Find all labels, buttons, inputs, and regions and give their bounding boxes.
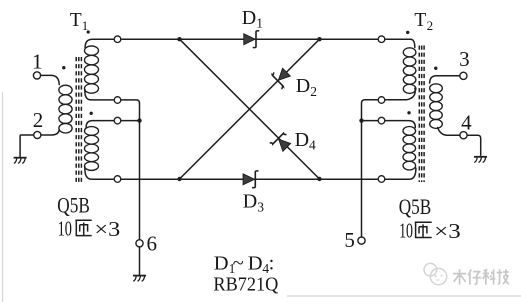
polarity dot T2 upper-left winding <box>406 31 409 34</box>
wire T1 secondary mid-upper to tap line and terminal 6 <box>85 90 140 240</box>
polarity dot T2 right winding <box>434 67 437 70</box>
wire T1 secondary mid-lower <box>86 121 139 128</box>
node top-left <box>177 37 181 41</box>
wire T1 primary bottom to terminal-2 <box>41 130 59 136</box>
value label 10 turns x3 (left): CJK za <box>75 220 91 235</box>
value label 10 turns x3 (right): CJK za <box>415 222 432 237</box>
svg-text:2: 2 <box>310 84 317 99</box>
transformer T1 upper secondary winding <box>85 46 99 55</box>
diode D2 <box>278 68 290 80</box>
connector circle T1 mid-lower <box>114 117 121 124</box>
wire top rail <box>85 39 415 47</box>
wire bottom rail <box>85 167 416 179</box>
svg-text:1: 1 <box>82 18 89 33</box>
watermark baseline rule <box>287 295 521 297</box>
node dot near T1 label <box>87 30 90 33</box>
watermark logo icon <box>424 263 437 276</box>
svg-text:T: T <box>414 10 426 31</box>
svg-text:3: 3 <box>257 199 264 214</box>
wire terminal-3 to T2 right winding top <box>430 76 460 83</box>
svg-text:6: 6 <box>146 232 157 256</box>
svg-text:D: D <box>242 7 256 29</box>
wire (scan page-edge line, left) <box>2 92 4 302</box>
svg-text:4: 4 <box>461 110 472 134</box>
svg-text:~: ~ <box>233 253 244 275</box>
transformer T1 primary winding <box>59 85 72 95</box>
connector circle T2 mid-upper <box>378 97 385 104</box>
svg-text:1: 1 <box>32 50 43 74</box>
wire terminal-1 to T1 primary top <box>41 75 60 84</box>
node bottom-left <box>177 177 181 181</box>
terminal 6 <box>136 240 143 247</box>
svg-text:D: D <box>296 75 310 97</box>
polarity dot T1 lower secondary <box>90 112 93 115</box>
wire T2 mid-upper to tap line and terminal 5 <box>362 88 416 237</box>
svg-text:T: T <box>70 10 82 31</box>
svg-text:D: D <box>295 129 309 151</box>
ground (right, under terminal 4) <box>474 156 487 158</box>
svg-text:D: D <box>248 253 263 275</box>
wire T2 right winding bottom to terminal 4 and ground <box>438 128 481 156</box>
wire diagonal B (bottom-left to top-right) <box>180 39 320 179</box>
ground (left, terminal 2) <box>14 157 27 159</box>
svg-text::: : <box>269 253 275 275</box>
svg-text:10: 10 <box>58 217 72 241</box>
node top-right <box>317 37 321 41</box>
transformer T2 lower-left winding <box>403 127 416 136</box>
svg-text:2: 2 <box>33 108 44 132</box>
junction T1 center tap <box>137 118 141 122</box>
transformer T1 lower secondary winding <box>85 127 99 136</box>
connector circle T2 top <box>378 36 385 43</box>
svg-text:5: 5 <box>344 228 355 252</box>
connector circle T1 bottom <box>114 176 121 183</box>
transformer T2 right winding <box>430 84 443 93</box>
polarity dot T2 lower-left winding <box>407 111 410 114</box>
svg-text:2: 2 <box>427 18 434 33</box>
transformer T2 core <box>419 46 424 183</box>
terminal 5 <box>358 237 365 244</box>
svg-text:Q5B: Q5B <box>57 193 90 218</box>
svg-text:×3: ×3 <box>94 217 120 241</box>
connector circle T1 top <box>114 36 121 43</box>
terminal 1 <box>33 72 40 79</box>
diode D4 <box>279 139 291 151</box>
svg-text:RB721Q: RB721Q <box>213 273 278 295</box>
svg-text:D: D <box>243 191 257 213</box>
terminal 3 <box>460 72 467 79</box>
transformer T2 upper-left winding <box>403 48 416 57</box>
svg-text:10: 10 <box>399 219 413 243</box>
ground (under terminal 6) <box>133 275 146 277</box>
node bottom-right <box>317 177 321 181</box>
svg-text:D: D <box>214 253 229 275</box>
diode D3 <box>243 174 254 185</box>
svg-text:Q5B: Q5B <box>399 194 432 219</box>
connector circle T2 mid-lower <box>378 117 385 124</box>
terminal 2 <box>34 131 41 138</box>
junction T2 center tap <box>359 118 363 122</box>
wire diagonal A (top-left to bottom-right) <box>180 39 320 179</box>
polarity dot T1 primary <box>62 66 65 69</box>
watermark text <box>453 269 466 284</box>
wire terminal-2 to ground <box>20 135 34 157</box>
terminal 4 <box>460 132 467 139</box>
transformer T1 core <box>76 57 81 183</box>
wire terminal-6 to ground <box>139 247 141 274</box>
diode D1 <box>244 34 255 45</box>
connector circle T2 bottom <box>378 176 385 183</box>
svg-text:×3: ×3 <box>434 219 461 243</box>
wire T2 mid-lower <box>362 121 416 128</box>
svg-text:1: 1 <box>256 16 263 31</box>
svg-text:3: 3 <box>459 47 470 71</box>
svg-text:4: 4 <box>309 138 316 153</box>
connector circle T1 mid-upper <box>114 97 121 104</box>
